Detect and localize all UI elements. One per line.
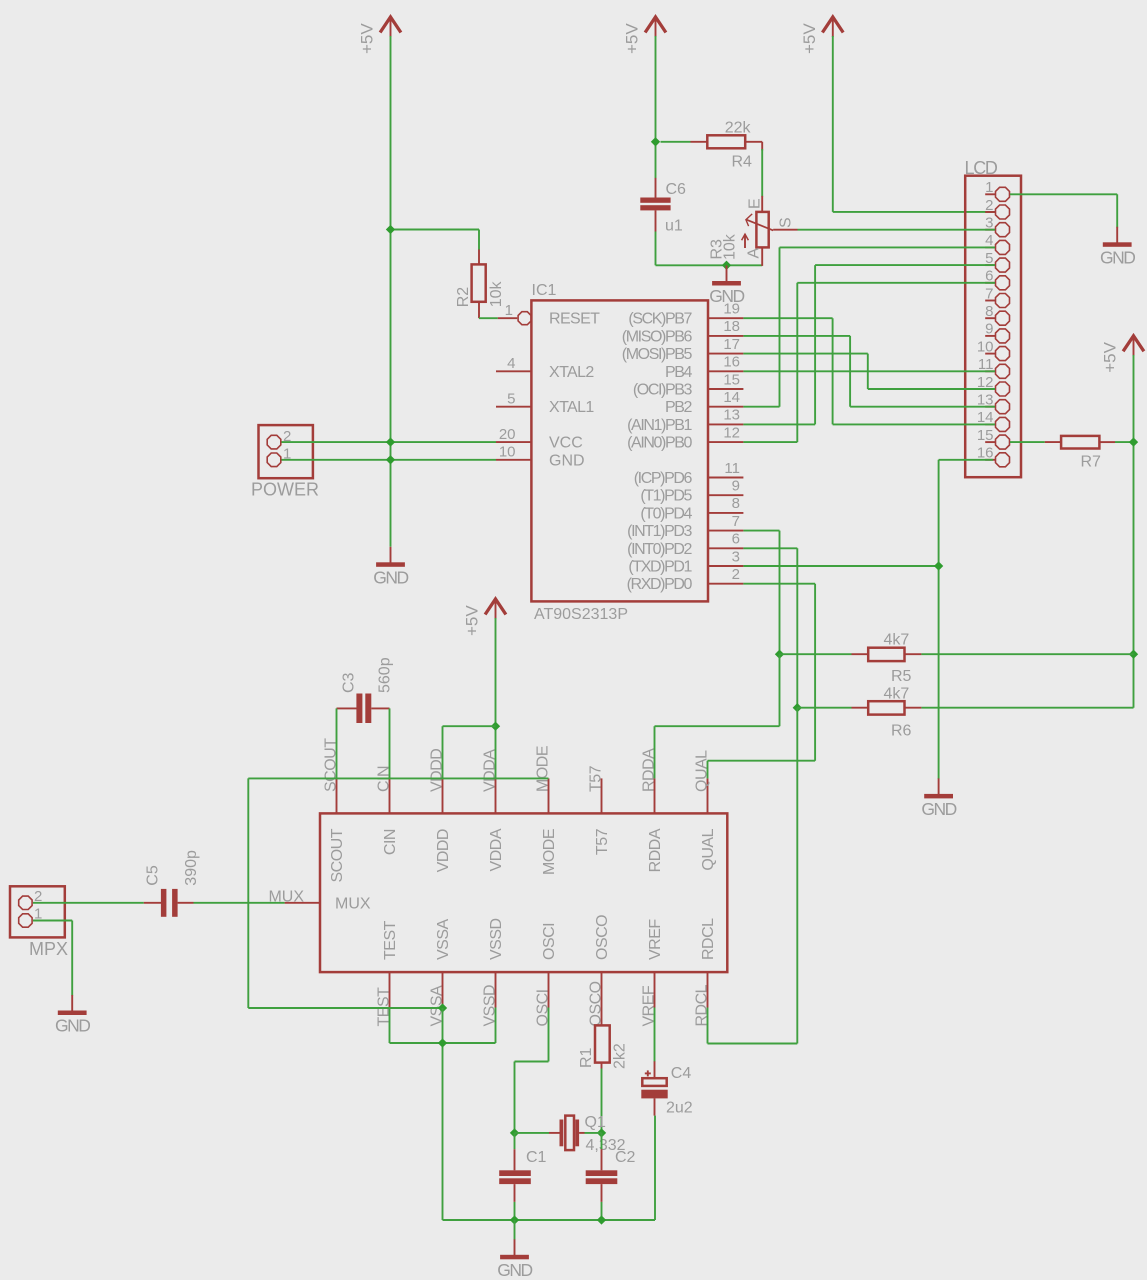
pin number 4 (IC1) (507, 355, 515, 372)
svg-text:R6: R6 (891, 723, 912, 740)
pad name VSSA (bottom outside) (429, 985, 446, 1027)
svg-text:(TXD)PD1: (TXD)PD1 (628, 559, 692, 576)
ground GND (LCD pin1) (1100, 227, 1135, 267)
pin number 6 (IC1) (732, 531, 740, 548)
svg-text:10: 10 (977, 338, 994, 355)
label R2 (455, 287, 472, 308)
svg-text:A: A (746, 248, 763, 259)
wire RDDA to R5 node (655, 654, 780, 778)
wire branch to R2 (391, 230, 480, 251)
wire PB1-LCD5 (743, 265, 995, 424)
pin 16 PB4 stub (708, 370, 743, 372)
pin number 7 (IC1) (732, 513, 740, 530)
svg-text:GND: GND (921, 799, 956, 819)
connector POWER (259, 425, 313, 478)
pin name (SCK)PB7 (628, 311, 692, 328)
pin name T57 (top inside) (594, 828, 611, 855)
pad name T57 (top outside) (588, 765, 605, 792)
resistor R6 (852, 701, 922, 714)
junction VSSA row2 (438, 1038, 447, 1047)
capacitor C4 (electrolytic) (641, 1061, 667, 1115)
pin 12 (AIN0)PB0 stub (708, 441, 743, 443)
pin name (ICP)PD6 (634, 470, 693, 487)
svg-text:390p: 390p (183, 850, 200, 886)
label C1 (526, 1149, 547, 1166)
pin number 2 (MPX) (34, 888, 42, 905)
svg-text:C3: C3 (340, 672, 357, 693)
pin number 2 (IC1) (732, 566, 740, 583)
svg-text:R1: R1 (578, 1047, 595, 1068)
pin number 1 (POWER) (283, 446, 291, 463)
svg-text:2: 2 (985, 197, 993, 214)
pin 13 (AIN1)PB1 stub (708, 423, 743, 425)
svg-text:8: 8 (985, 303, 993, 320)
supply +5V arrow (middle) (623, 17, 666, 54)
svg-text:CIN: CIN (382, 829, 399, 855)
crystal Q1 (515, 1116, 602, 1151)
pot R3 direction arrow (742, 234, 749, 248)
label AT90S2313P (534, 606, 628, 623)
wire R5 left (780, 653, 852, 655)
wire PB6-LCD13 (743, 336, 995, 407)
label IC1 (532, 282, 557, 299)
pin name SCOUT (top inside) (329, 828, 346, 882)
pin number 15 (IC1) (723, 371, 740, 388)
pin name (MISO)PB6 (622, 328, 693, 345)
svg-text:XTAL2: XTAL2 (549, 364, 594, 381)
svg-text:+5V: +5V (623, 23, 642, 54)
svg-text:7: 7 (985, 285, 993, 302)
capacitor C1 (499, 1133, 531, 1220)
pin name VDDD (top inside) (435, 829, 452, 872)
svg-text:6: 6 (732, 531, 740, 548)
pad name RDDA (top outside) (641, 748, 658, 792)
pin number 19 (IC1) (723, 301, 740, 318)
IC U2 sensor box (320, 813, 727, 972)
wire R7 to +5V rail (1115, 441, 1134, 443)
label R7 (1081, 454, 1102, 471)
svg-text:RDCL: RDCL (700, 918, 717, 960)
wire +5V to LCD pin2 (833, 36, 995, 212)
svg-text:15: 15 (723, 371, 740, 388)
pin 8 (T0)PD4 stub (708, 512, 743, 514)
wire R5 right to +5V (921, 653, 1133, 655)
junction C2 bottom (597, 1215, 606, 1224)
pin name VREF (bottom inside) (647, 919, 664, 960)
wire R2 to RESET pin (479, 317, 498, 319)
wire +5V to C6/R4 node (655, 36, 657, 179)
pin number 17 (IC1) (723, 336, 740, 353)
junction RDCL/R6 (793, 703, 802, 712)
svg-text:VDDA: VDDA (488, 828, 505, 871)
svg-text:TEST: TEST (382, 920, 399, 960)
svg-text:(AIN0)PB0: (AIN0)PB0 (627, 435, 692, 452)
label LCD (965, 158, 998, 178)
svg-text:Q1: Q1 (585, 1114, 606, 1131)
pin 19 (SCK)PB7 stub (708, 317, 743, 319)
pin 3 (TXD)PD1 stub (708, 565, 743, 567)
label 560p (C3 value) (377, 657, 394, 693)
pad name OSCO (bottom outside) (588, 981, 605, 1026)
svg-text:(T0)PD4: (T0)PD4 (640, 505, 692, 522)
ground GND (below POWER wires) (373, 547, 408, 588)
pin 14 PB2 stub (708, 406, 743, 408)
pin name (INT1)PD3 (627, 523, 692, 540)
svg-text:(T1)PD5: (T1)PD5 (640, 488, 692, 505)
wire MPX pin1 to GND (33, 921, 72, 996)
capacitor C6 (640, 178, 670, 232)
svg-text:22k: 22k (725, 120, 752, 137)
wire to VDDD (443, 726, 496, 778)
wire bottom GND rail (443, 1116, 656, 1220)
svg-text:3: 3 (732, 548, 740, 565)
pin name (AIN1)PB1 (627, 417, 692, 434)
wire C3 right to CIN (389, 708, 391, 778)
pin name (RXD)PD0 (627, 576, 693, 593)
pin 15 (OCI)PB3 stub (708, 388, 743, 390)
pin number 18 (IC1) (723, 318, 740, 335)
pin number 3 (IC1) (732, 548, 740, 565)
svg-text:C2: C2 (615, 1149, 636, 1166)
IC U1 box (IC1) (531, 300, 708, 601)
wire C3 left to SCOUT (336, 708, 338, 778)
pin number 14 (IC1) (723, 389, 740, 406)
wire PB0-LCD6 (743, 283, 995, 442)
label 4,332 (Q1 value) (586, 1137, 626, 1154)
pin name PB4 (665, 364, 693, 381)
svg-text:4k7: 4k7 (884, 632, 910, 649)
capacitor C5 (144, 889, 194, 917)
svg-text:S: S (778, 217, 795, 228)
LCD pads (996, 187, 1010, 467)
U2 bottom pin stubs (390, 972, 708, 1007)
pin name (AIN0)PB0 (627, 435, 692, 452)
svg-text:T57: T57 (588, 765, 605, 792)
svg-text:4: 4 (507, 355, 515, 372)
junction at +5V/R2 branch (386, 225, 395, 234)
svg-text:+5V: +5V (463, 605, 482, 636)
pin 20 VCC stub (496, 441, 531, 443)
svg-text:(AIN1)PB1: (AIN1)PB1 (627, 417, 692, 434)
svg-text:(MOSI)PB5: (MOSI)PB5 (622, 346, 693, 363)
junction crystal left (510, 1128, 519, 1137)
resistor R5 (852, 648, 922, 661)
wire PD3 to R5 (743, 531, 779, 655)
junction +5V/VCC (386, 437, 395, 446)
label 390p (C5 value) (183, 850, 200, 886)
wire PD2 to R6 (743, 548, 797, 707)
pin name OSCI (bottom inside) (541, 923, 558, 960)
capacitor C2 (586, 1133, 618, 1220)
wire OSCI down (515, 1008, 549, 1133)
svg-text:16: 16 (723, 354, 740, 371)
pin 1 RESET with inversion bubble (498, 312, 531, 325)
label R3 (708, 239, 725, 260)
pin name RDDA (top inside) (647, 828, 664, 872)
svg-text:VREF: VREF (647, 919, 664, 960)
wire S to LCD3 (798, 229, 996, 231)
pin name (OCI)PB3 (633, 382, 693, 399)
wire PB5-LCD12 (743, 354, 995, 389)
junction VSSA top (438, 1003, 447, 1012)
label S (pot wiper) (778, 217, 795, 228)
wire TEST-VSSD row (390, 1042, 496, 1044)
svg-text:1: 1 (985, 179, 993, 196)
svg-text:RESET: RESET (549, 311, 600, 328)
svg-text:9: 9 (985, 321, 993, 338)
svg-text:5: 5 (507, 391, 515, 408)
svg-text:VSSD: VSSD (488, 918, 505, 960)
pin name VDDA (top inside) (488, 828, 505, 871)
svg-text:PB4: PB4 (665, 364, 693, 381)
pin number 2 (POWER) (283, 428, 291, 445)
pin name (MOSI)PB5 (622, 346, 693, 363)
pin 5 XTAL1 stub (496, 406, 531, 408)
connector MPX (10, 886, 65, 937)
pin number 16 (IC1) (723, 354, 740, 371)
svg-text:18: 18 (723, 318, 740, 335)
svg-text:GND: GND (709, 286, 744, 306)
pin name VSSD (bottom inside) (488, 918, 505, 960)
supply +5V arrow (left) (358, 17, 401, 54)
label 4k7 (R6 value) (884, 685, 910, 702)
svg-text:MUX: MUX (335, 895, 371, 912)
wire C5 to MUX (194, 902, 285, 904)
svg-text:OSCI: OSCI (541, 923, 558, 960)
svg-text:(INT1)PD3: (INT1)PD3 (627, 523, 692, 540)
pad name RDCL (bottom outside) (694, 984, 711, 1026)
svg-text:10: 10 (499, 444, 516, 461)
pin name QUAL (top inside) (700, 828, 717, 870)
svg-text:GND: GND (549, 452, 585, 469)
pad name OSCI (bottom outside) (535, 989, 552, 1026)
label C6 (666, 181, 687, 198)
pin name RESET (549, 311, 600, 328)
svg-text:E: E (747, 198, 764, 209)
svg-text:GND: GND (373, 567, 408, 587)
resistor R7 (1045, 436, 1115, 449)
label 10k (R2 value) (488, 281, 505, 308)
pad name TEST (bottom outside) (376, 987, 393, 1027)
svg-text:R2: R2 (455, 287, 472, 308)
svg-text:RDDA: RDDA (647, 828, 664, 872)
potentiometer R3 (756, 196, 768, 266)
resistor R1 (595, 1008, 610, 1069)
svg-text:PB2: PB2 (665, 399, 693, 416)
svg-text:2k2: 2k2 (612, 1043, 629, 1069)
label MPX (29, 939, 68, 959)
wire R4 to R3 top (761, 149, 763, 197)
svg-text:+5V: +5V (1101, 341, 1120, 372)
junction VDDA/VDDD (491, 722, 500, 731)
svg-text:+5V: +5V (358, 23, 377, 54)
wire LCD15 to R7 (1010, 441, 1045, 443)
wire PD0-QUAL (708, 584, 816, 779)
junction R7/+5V (1129, 437, 1138, 446)
label E (pot top) (747, 198, 764, 209)
pin number 20 (IC1) (499, 426, 516, 443)
label R1 (578, 1047, 595, 1068)
pad name VSSD (bottom outside) (482, 985, 499, 1027)
svg-text:C4: C4 (671, 1065, 692, 1082)
label POWER (251, 480, 319, 500)
label C5 (145, 865, 162, 886)
pin name (INT0)PD2 (627, 541, 692, 558)
svg-text:R5: R5 (891, 668, 912, 685)
svg-text:+5V: +5V (800, 23, 819, 54)
C4 plus sign (645, 1070, 651, 1076)
pin 11 (ICP)PD6 stub (708, 477, 743, 479)
svg-text:9: 9 (732, 478, 740, 495)
svg-text:LCD: LCD (965, 158, 998, 178)
svg-text:GND: GND (1100, 247, 1135, 267)
svg-text:20: 20 (499, 426, 516, 443)
pad name MUX (outside) (268, 889, 304, 906)
pin name MODE (top inside) (541, 829, 558, 875)
wire PB7-LCD14 (743, 318, 995, 424)
svg-text:(INT0)PD2: (INT0)PD2 (627, 541, 692, 558)
svg-text:11: 11 (724, 460, 740, 477)
svg-text:10k: 10k (722, 233, 739, 260)
wire VSSD down (495, 1008, 497, 1044)
wire R6 left (797, 707, 851, 709)
pad name SCOUT (top outside) (323, 738, 340, 792)
pin number 10 (IC1) (499, 444, 516, 461)
label u1 (C6 value) (665, 218, 683, 235)
pin name OSCO (bottom inside) (594, 915, 611, 960)
svg-text:T57: T57 (594, 828, 611, 855)
pin name TEST (bottom inside) (382, 920, 399, 960)
label 4k7 (R5 value) (884, 632, 910, 649)
pin 17 (MOSI)PB5 stub (708, 353, 743, 355)
svg-text:14: 14 (723, 389, 740, 406)
wire MPX pin2 to C5 (33, 902, 144, 904)
label R5 (891, 668, 912, 685)
pin 9 (T1)PD5 stub (708, 494, 743, 496)
pin 7 (INT1)PD3 stub (708, 530, 743, 532)
wire R1 to crystal node (601, 1069, 603, 1133)
junction RDDA/R5 (775, 650, 784, 659)
pin number 5 (IC1) (507, 391, 515, 408)
LCD pin stubs (985, 194, 995, 460)
wire VSSA down (442, 1008, 444, 1220)
svg-text:R7: R7 (1081, 454, 1102, 471)
resistor R4 (661, 135, 763, 150)
svg-text:(MISO)PB6: (MISO)PB6 (622, 328, 693, 345)
svg-text:10k: 10k (488, 281, 505, 308)
svg-text:AT90S2313P: AT90S2313P (534, 606, 628, 623)
ground GND (below pot) (709, 266, 744, 307)
wire PB4-LCD11 (743, 370, 995, 372)
junction C1 bottom (510, 1215, 519, 1224)
pad name VREF (bottom outside) (641, 985, 658, 1026)
connector LCD box (965, 176, 1021, 478)
svg-text:C5: C5 (145, 865, 162, 886)
pin 6 (INT0)PD2 stub (708, 547, 743, 549)
ground GND (LCD16 net) (921, 778, 956, 819)
svg-text:1: 1 (505, 302, 513, 319)
svg-text:VDDD: VDDD (435, 829, 452, 872)
label 2k2 (R1 value) (612, 1043, 629, 1069)
label C3 (340, 672, 357, 693)
wire LCD16/PD1 to GND (939, 460, 993, 779)
label R4 (732, 154, 753, 171)
pin name XTAL1 (549, 399, 594, 416)
pad name MODE (top outside) (535, 746, 552, 792)
svg-text:OSCO: OSCO (594, 915, 611, 960)
pin name (TXD)PD1 (628, 559, 692, 576)
pin 18 (MISO)PB6 stub (708, 335, 743, 337)
svg-text:GND: GND (497, 1260, 532, 1280)
svg-text:(RXD)PD0: (RXD)PD0 (627, 576, 693, 593)
label A (pot bottom) (746, 248, 763, 259)
pin name VSSA (bottom inside) (435, 918, 452, 960)
U2 top pin stubs (337, 778, 708, 813)
pin name VCC (549, 435, 583, 452)
pin name RDCL (bottom inside) (700, 918, 717, 960)
pin name (T1)PD5 (640, 488, 692, 505)
svg-text:VCC: VCC (549, 435, 583, 452)
svg-text:(ICP)PD6: (ICP)PD6 (634, 470, 693, 487)
junction PD1/LCD16 (934, 561, 943, 570)
svg-text:R4: R4 (732, 154, 753, 171)
pin MUX stub (285, 902, 320, 904)
wire PB2-LCD4 (743, 247, 995, 406)
svg-text:C1: C1 (526, 1149, 547, 1166)
pin number 12 (IC1) (723, 424, 740, 441)
svg-text:POWER: POWER (251, 480, 319, 500)
wire POWER pin1 to GND pin (282, 459, 497, 461)
svg-text:2u2: 2u2 (666, 1100, 693, 1117)
pin name CIN (top inside) (382, 829, 399, 855)
svg-text:15: 15 (977, 427, 994, 444)
pin number 1 (IC1 RESET) (505, 302, 513, 319)
svg-text:VSSA: VSSA (435, 918, 452, 960)
wire GND rail left vertical (247, 778, 249, 1008)
pin name PB2 (665, 399, 693, 416)
svg-text:17: 17 (723, 336, 740, 353)
supply +5V arrow (LCD) (800, 17, 843, 54)
svg-text:IC1: IC1 (532, 282, 557, 299)
junction R5/+5V (1129, 650, 1138, 659)
svg-text:(SCK)PB7: (SCK)PB7 (628, 311, 692, 328)
ground GND (crystal) (497, 1220, 532, 1280)
svg-text:8: 8 (732, 495, 740, 512)
svg-text:560p: 560p (377, 657, 394, 693)
wire TEST down (389, 1008, 391, 1044)
pin 4 XTAL2 stub (496, 370, 531, 372)
LCD pin numbers (977, 179, 994, 462)
wire VREF down (654, 1008, 656, 1062)
svg-text:13: 13 (723, 407, 740, 424)
supply +5V arrow (right) (1101, 336, 1144, 373)
pin number 11 (IC1) (724, 460, 740, 477)
pin 2 (RXD)PD0 stub (708, 583, 743, 585)
wire GND rail to VSSA (248, 1007, 442, 1009)
svg-text:MODE: MODE (535, 746, 552, 792)
label C4 (671, 1065, 692, 1082)
junction C6/R4 node (651, 137, 660, 146)
pad name CIN (top outside) (376, 766, 393, 792)
svg-text:u1: u1 (665, 218, 683, 235)
wire PD1 net (743, 565, 938, 567)
svg-text:XTAL1: XTAL1 (549, 399, 594, 416)
svg-text:QUAL: QUAL (700, 828, 717, 870)
svg-text:7: 7 (732, 513, 740, 530)
pad name VDDD (top outside) (429, 749, 446, 792)
pin number 1 (MPX) (34, 906, 42, 923)
wire C6 bottom to GND row (655, 232, 657, 266)
